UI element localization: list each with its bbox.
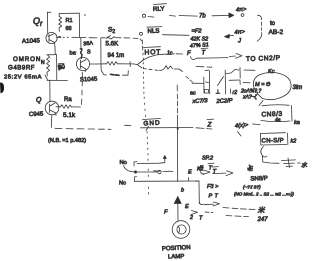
svg-text:No: No [120, 160, 127, 166]
diode D1 [59, 65, 64, 71]
svg-text:R1: R1 [66, 18, 73, 24]
svg-text:4a: 4a [275, 118, 281, 124]
svg-text:N: N [41, 60, 45, 66]
svg-text:k2: k2 [291, 139, 297, 145]
svg-text:F: F [164, 210, 168, 216]
wire emitter Q1mid down (dashed) [81, 99, 83, 105]
svg-text:T: T [215, 194, 219, 200]
svg-text:1c: 1c [167, 51, 173, 57]
svg-text:Q: Q [36, 97, 42, 104]
dashed wire to GND [55, 127, 62, 129]
bus dash-dot y37 [72, 36, 76, 38]
svg-text:C945: C945 [29, 111, 44, 118]
svg-text:=F2: =F2 [192, 29, 203, 35]
wire NLS line y35 [140, 32, 143, 35]
svg-text:HOT: HOT [144, 49, 161, 57]
svg-text:P: P [209, 194, 213, 200]
lamp L1 [172, 221, 190, 239]
svg-text:ka: ka [294, 120, 300, 126]
svg-text:36Λ: 36Λ [83, 40, 94, 47]
svg-text:GND: GND [143, 120, 161, 128]
svg-text:2C2/P: 2C2/P [215, 98, 233, 105]
wire L below x101 [101, 64, 107, 75]
svg-text:⊥: ⊥ [216, 90, 221, 96]
diode arrow on lamp wire [177, 197, 179, 221]
svg-text:4π>: 4π> [234, 29, 245, 36]
svg-text:E: E [185, 204, 189, 210]
svg-text:LAMP: LAMP [168, 254, 185, 261]
svg-text:RLY: RLY [153, 5, 165, 13]
junction dot [177, 128, 179, 130]
wire emitter Q1 to relay [54, 47, 56, 55]
svg-text:ba: ba [70, 51, 77, 57]
svg-text:7b: 7b [199, 14, 206, 20]
svg-text:25:2V 65mA: 25:2V 65mA [4, 75, 42, 81]
svg-text:OMRON: OMRON [13, 56, 41, 63]
bus dot-dash vertical x143 [141, 40, 143, 44]
svg-text:50: 50 [57, 63, 65, 71]
GND wire [141, 127, 194, 129]
transistor Q3 (mid) [76, 57, 89, 70]
svg-text:Nc: Nc [119, 181, 126, 187]
svg-text:4π>: 4π> [236, 7, 247, 14]
svg-text:247: 247 [257, 217, 269, 223]
arrow to AB-2 [212, 14, 230, 16]
svg-text:G4B9RF: G4B9RF [8, 65, 35, 72]
svg-text:(~?٪ S?): (~?٪ S?) [243, 185, 261, 190]
ground symbol scribble [282, 159, 296, 162]
svg-text:5.1k: 5.1k [63, 112, 76, 119]
svg-text:4c: 4c [248, 167, 254, 173]
wire down x101 [100, 38, 102, 50]
svg-text:(NO Mod.. 2 .. S2 ... w2 ...=♪: (NO Mod.. 2 .. S2 ... w2 ...=♪)) [234, 192, 294, 197]
wire relay to Q2 [49, 80, 51, 101]
transistor Q2 [45, 101, 59, 115]
brace to AB-2 [258, 15, 262, 20]
svg-text:F: F [187, 51, 191, 57]
resistor zigzag on wire [107, 62, 118, 66]
svg-text:F3 >: F3 > [207, 184, 219, 190]
svg-text:SP.2: SP.2 [202, 156, 213, 162]
connector CN8/3 [262, 105, 289, 106]
wire RLY line y16 [142, 14, 145, 17]
svg-text:3lm: 3lm [293, 85, 303, 91]
svg-text:xΛ?~ζ: xΛ?~ζ [242, 95, 258, 101]
wire stub right of PC2 [239, 68, 241, 79]
photo-transistor PC2 [218, 77, 224, 86]
svg-text:4(x)>: 4(x)> [235, 123, 249, 130]
svg-text:xC7/3: xC7/3 [191, 98, 208, 105]
motor M1 (ellipse with scribbles) [258, 72, 291, 99]
svg-text:ac: ac [190, 91, 196, 97]
svg-text:to: to [270, 21, 276, 27]
svg-text:r2: r2 [233, 90, 238, 96]
wire Q2 emitter down [50, 116, 53, 128]
transistor Q1 (Qf) [46, 32, 57, 43]
svg-text:米: 米 [258, 207, 266, 215]
blob left edge [0, 82, 4, 93]
trunk vertical [176, 85, 178, 91]
svg-text:T: T [199, 216, 203, 222]
svg-text:Ra: Ra [64, 97, 72, 103]
svg-text:2: 2 [189, 215, 193, 221]
svg-text:94 1m: 94 1m [108, 53, 125, 59]
svg-text:NLS: NLS [147, 28, 159, 35]
branch right from junction [198, 181, 200, 204]
svg-text:T: T [209, 166, 213, 172]
svg-text:TO CN2/P: TO CN2/P [246, 55, 281, 63]
svg-text:A1045: A1045 [22, 37, 41, 45]
svg-text:CN-S/P: CN-S/P [261, 137, 284, 144]
svg-text:S: S [87, 50, 91, 56]
connector F/K row y170 [154, 170, 160, 172]
svg-text:AB-2: AB-2 [269, 29, 284, 36]
svg-text:68: 68 [66, 26, 72, 32]
wire Q3 collector to HOT node [90, 63, 97, 65]
svg-text:5.6K: 5.6K [106, 41, 120, 48]
wire down x81 [80, 38, 82, 49]
svg-text:SN8/P: SN8/P [250, 176, 268, 183]
svg-text:(N.B. =1 p.482): (N.B. =1 p.482) [48, 138, 86, 144]
connector arrow to CN2/P [230, 55, 236, 58]
svg-text:水: 水 [301, 161, 308, 169]
connector CN8/P [261, 132, 286, 135]
photo-transistor PC1 [203, 77, 205, 93]
svg-text:S1045: S1045 [80, 77, 98, 84]
resistor R1 (boxed, top) [59, 12, 79, 14]
svg-text:M = Θ: M = Θ [255, 82, 271, 88]
wire loop below CN8/P [261, 147, 267, 158]
svg-text:E: E [188, 170, 192, 176]
wire collector top of Q1 [47, 12, 49, 33]
svg-text:F: F [200, 166, 204, 172]
wire to CN8/3 [259, 101, 263, 106]
node HOT fan [133, 63, 138, 66]
svg-text:b: b [181, 188, 184, 194]
